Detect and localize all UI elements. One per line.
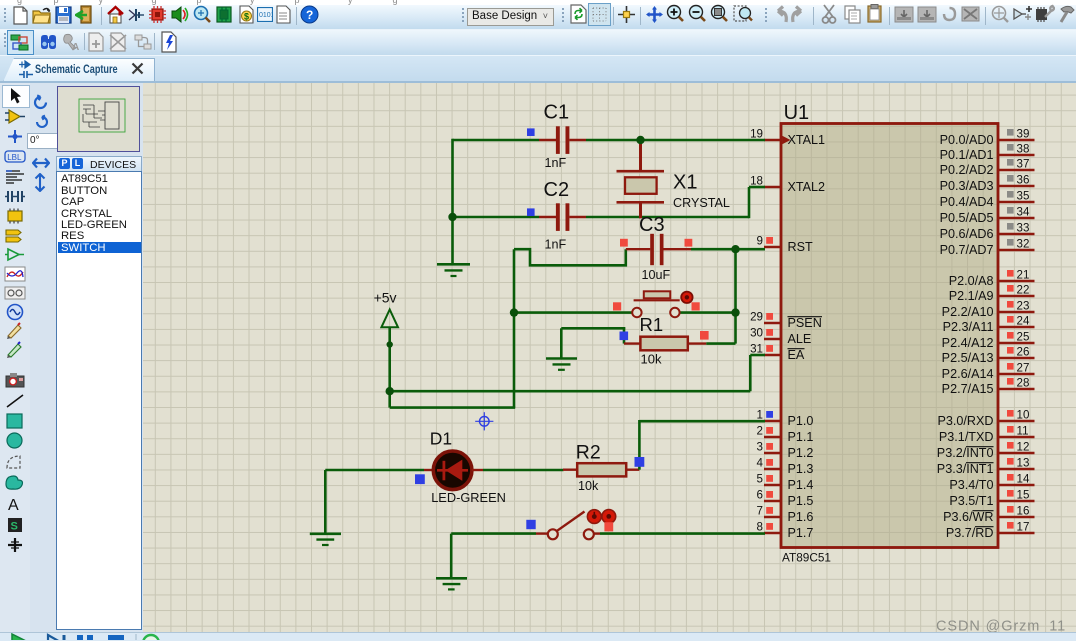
svg-text:3: 3 xyxy=(757,441,763,454)
svg-text:P0.4/AD4: P0.4/AD4 xyxy=(940,195,994,209)
svg-text:22: 22 xyxy=(1017,284,1030,297)
svg-text:EA: EA xyxy=(788,348,805,362)
svg-text:39: 39 xyxy=(1017,128,1030,141)
svg-text:18: 18 xyxy=(750,175,763,188)
svg-text:U1: U1 xyxy=(784,102,810,124)
svg-text:38: 38 xyxy=(1017,143,1030,156)
svg-text:8: 8 xyxy=(757,521,763,534)
svg-text:10uF: 10uF xyxy=(642,268,671,282)
svg-text:P3.3/INT1: P3.3/INT1 xyxy=(937,462,994,476)
svg-text:7: 7 xyxy=(757,505,763,518)
svg-text:19: 19 xyxy=(750,128,763,141)
svg-text:P1.6: P1.6 xyxy=(788,510,814,524)
svg-text:23: 23 xyxy=(1017,300,1030,313)
svg-text:24: 24 xyxy=(1017,315,1030,328)
svg-text:P0.7/AD7: P0.7/AD7 xyxy=(940,243,994,257)
svg-text:26: 26 xyxy=(1017,346,1030,359)
svg-text:ALE: ALE xyxy=(788,332,812,346)
svg-text:10: 10 xyxy=(1017,409,1030,422)
svg-text:9: 9 xyxy=(757,235,763,248)
svg-text:27: 27 xyxy=(1017,362,1030,375)
svg-text:P2.2/A10: P2.2/A10 xyxy=(942,305,994,319)
svg-text:P3.7/RD: P3.7/RD xyxy=(946,526,994,540)
svg-text:11: 11 xyxy=(1017,425,1029,438)
svg-text:P2.6/A14: P2.6/A14 xyxy=(942,367,994,381)
svg-text:14: 14 xyxy=(1017,473,1030,486)
svg-text:25: 25 xyxy=(1017,331,1030,344)
svg-text:P2.3/A11: P2.3/A11 xyxy=(943,320,994,334)
svg-text:1nF: 1nF xyxy=(545,238,567,252)
svg-text:P1.5: P1.5 xyxy=(788,494,814,508)
svg-text:37: 37 xyxy=(1017,158,1030,171)
svg-text:10k: 10k xyxy=(641,352,662,367)
svg-text:P2.1/A9: P2.1/A9 xyxy=(949,289,994,303)
svg-text:30: 30 xyxy=(750,327,763,340)
svg-text:34: 34 xyxy=(1017,206,1030,219)
svg-text:36: 36 xyxy=(1017,174,1030,187)
svg-text:RST: RST xyxy=(788,240,813,254)
svg-text:2: 2 xyxy=(757,425,763,438)
svg-text:P2.7/A15: P2.7/A15 xyxy=(942,382,994,396)
svg-text:R1: R1 xyxy=(640,314,664,335)
svg-text:P0.2/AD2: P0.2/AD2 xyxy=(940,163,994,177)
svg-text:12: 12 xyxy=(1017,441,1030,454)
svg-text:P1.2: P1.2 xyxy=(788,446,814,460)
svg-text:21: 21 xyxy=(1017,269,1030,282)
svg-text:P1.1: P1.1 xyxy=(788,430,814,444)
svg-text:1nF: 1nF xyxy=(545,156,567,170)
svg-text:CRYSTAL: CRYSTAL xyxy=(673,196,730,210)
svg-text:P2.4/A12: P2.4/A12 xyxy=(942,336,994,350)
svg-text:10k: 10k xyxy=(578,479,599,493)
svg-text:X1: X1 xyxy=(673,171,697,193)
svg-text:P0.3/AD3: P0.3/AD3 xyxy=(940,179,994,193)
svg-text:P3.4/T0: P3.4/T0 xyxy=(949,478,993,492)
svg-text:P0.1/AD1: P0.1/AD1 xyxy=(940,148,994,162)
svg-text:+5v: +5v xyxy=(374,290,397,306)
svg-text:P2.5/A13: P2.5/A13 xyxy=(942,351,994,365)
svg-text:P0.5/AD5: P0.5/AD5 xyxy=(940,211,994,225)
svg-text:1: 1 xyxy=(757,409,763,422)
svg-text:P2.0/A8: P2.0/A8 xyxy=(949,274,994,288)
svg-text:LED-GREEN: LED-GREEN xyxy=(431,490,506,505)
svg-text:15: 15 xyxy=(1017,489,1030,502)
svg-text:PSEN: PSEN xyxy=(788,316,822,330)
svg-text:C1: C1 xyxy=(544,102,570,124)
svg-text:XTAL1: XTAL1 xyxy=(788,133,826,147)
svg-text:P0.6/AD6: P0.6/AD6 xyxy=(940,227,994,241)
svg-text:29: 29 xyxy=(750,311,763,324)
svg-text:R2: R2 xyxy=(576,441,601,463)
svg-text:P3.6/WR: P3.6/WR xyxy=(943,510,993,524)
svg-text:AT89C51: AT89C51 xyxy=(782,551,831,565)
svg-text:P1.0: P1.0 xyxy=(788,414,814,428)
svg-text:31: 31 xyxy=(750,343,763,356)
svg-text:33: 33 xyxy=(1017,222,1030,235)
svg-text:P3.5/T1: P3.5/T1 xyxy=(949,494,993,508)
svg-text:13: 13 xyxy=(1017,457,1030,470)
svg-text:D1: D1 xyxy=(430,429,452,449)
svg-text:6: 6 xyxy=(757,489,763,502)
svg-text:32: 32 xyxy=(1017,238,1030,251)
svg-text:28: 28 xyxy=(1017,377,1030,390)
svg-text:4: 4 xyxy=(757,457,764,470)
svg-text:XTAL2: XTAL2 xyxy=(788,180,826,194)
svg-text:P1.7: P1.7 xyxy=(788,526,814,540)
svg-text:C3: C3 xyxy=(639,214,665,236)
svg-text:5: 5 xyxy=(757,473,763,486)
svg-text:17: 17 xyxy=(1017,521,1030,534)
svg-text:P1.4: P1.4 xyxy=(788,478,814,492)
svg-text:P3.1/TXD: P3.1/TXD xyxy=(939,430,994,444)
svg-text:P0.0/AD0: P0.0/AD0 xyxy=(940,133,994,147)
svg-text:P3.2/INT0: P3.2/INT0 xyxy=(937,446,994,460)
svg-text:35: 35 xyxy=(1017,190,1030,203)
svg-text:C2: C2 xyxy=(544,179,570,201)
svg-text:16: 16 xyxy=(1017,505,1030,518)
svg-text:P1.3: P1.3 xyxy=(788,462,814,476)
svg-text:P3.0/RXD: P3.0/RXD xyxy=(938,414,994,428)
